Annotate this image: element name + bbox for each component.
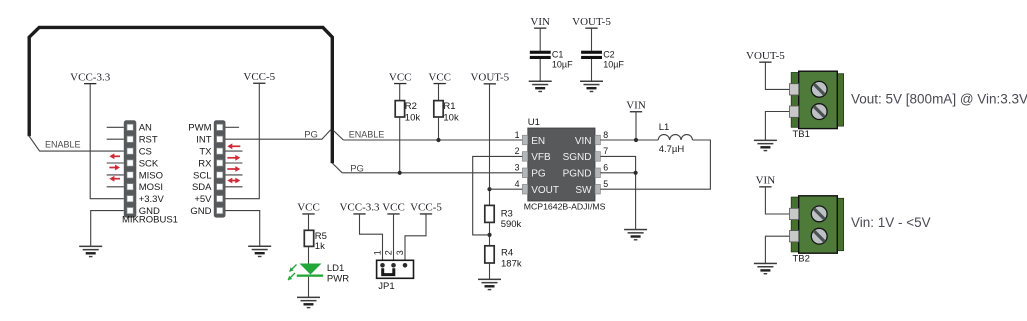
diode LD1 LED [288, 264, 323, 281]
wire R1 to ENABLE line [438, 117, 440, 140]
svg-text:TB2: TB2 [793, 254, 810, 265]
connector JP1 shunt jumper [383, 268, 394, 274]
svg-text:187k: 187k [501, 258, 522, 269]
svg-text:SDA: SDA [192, 182, 212, 193]
capacitor C1 [530, 51, 551, 59]
connector header2 body [214, 120, 226, 217]
svg-text:R1: R1 [443, 101, 455, 112]
node junction PGND [634, 171, 638, 175]
inductor L1 [658, 135, 692, 140]
label R3 value [501, 209, 522, 231]
ground C1 [529, 81, 552, 93]
svg-text:VIN: VIN [756, 175, 776, 187]
wire ENABLE from bus to U1 EN pin [343, 139, 522, 141]
connector MIKROBUS1 pin names [139, 123, 165, 217]
power VIN net flag (C1) [530, 16, 550, 29]
wire PG from INT pin to bus [226, 129, 332, 139]
label C2 value [603, 50, 624, 70]
svg-text:JP1: JP1 [378, 281, 394, 292]
power VOUT-5 net flag (TB1) [746, 50, 785, 63]
op-amp U1 MCP1642B body [528, 128, 595, 201]
arrow SCL direction (out) [227, 166, 240, 172]
svg-text:VIN: VIN [530, 16, 550, 28]
svg-text:VCC-5: VCC-5 [410, 202, 442, 214]
arrow MOSI direction (in) [109, 176, 120, 182]
wire R3 to junction [489, 222, 491, 245]
svg-text:10k: 10k [443, 112, 459, 123]
ground TB2 [754, 263, 777, 275]
svg-text:VIN: VIN [626, 100, 646, 112]
svg-text:VOUT: VOUT [531, 185, 559, 196]
svg-text:VCC-3.3: VCC-3.3 [339, 202, 380, 214]
svg-text:ENABLE: ENABLE [45, 140, 81, 150]
wire VIN flag down [635, 112, 637, 140]
svg-text:VFB: VFB [531, 152, 551, 163]
svg-text:R4: R4 [501, 248, 513, 259]
power VCC-3.3 net flag (JP1) [339, 202, 380, 215]
svg-text:PG: PG [304, 130, 318, 141]
power VCC net flag (R5) [297, 202, 320, 215]
ground header2 GND [248, 246, 271, 258]
svg-text:RX: RX [198, 158, 212, 169]
resistor R4 [485, 246, 494, 263]
svg-text:R2: R2 [405, 101, 417, 112]
wire stub MISO pin [107, 174, 124, 176]
svg-text:VCC: VCC [297, 202, 320, 214]
svg-text:3: 3 [395, 250, 405, 255]
connector header2 pin pads [217, 124, 223, 214]
svg-text:6: 6 [603, 163, 608, 173]
svg-text:R3: R3 [501, 209, 513, 220]
arrow SCK direction (in) [109, 153, 120, 159]
power VCC net flag (R1) [428, 71, 451, 84]
ground C2 [580, 81, 603, 93]
power VCC net flag (JP1) [382, 202, 405, 215]
wire ENABLE bus entry diagonal (left) [29, 135, 40, 151]
svg-text:5: 5 [603, 179, 608, 189]
svg-text:U1: U1 [528, 117, 540, 128]
power VCC-5 net flag (JP1) [410, 202, 442, 215]
svg-text:TX: TX [199, 147, 212, 158]
wire C1 to ground [539, 59, 541, 81]
connector MIKROBUS1 body [124, 120, 137, 217]
wire stub RST pin [107, 138, 124, 140]
wire PG bus exit diagonal (bottom) [332, 163, 342, 173]
connector TB1 terminal block [790, 71, 844, 128]
svg-text:1: 1 [515, 130, 520, 140]
ground MIKROBUS1 GND [79, 246, 102, 258]
wire stub SCL pin [226, 174, 243, 176]
arrow RX direction (out) [227, 155, 240, 161]
wire stub TX pin [226, 150, 243, 152]
wire VCC-5 to +5V pin [226, 83, 260, 198]
power VOUT-5 net flag (C2) [572, 16, 611, 29]
wire VIN pin to L1 [600, 139, 658, 141]
label LD1 [327, 263, 349, 284]
svg-text:MOSI: MOSI [139, 182, 163, 193]
svg-text:PWM: PWM [188, 123, 211, 134]
wire R4 to ground [489, 263, 491, 279]
node junction VIN/pin8 [634, 138, 638, 142]
wire stub RX pin [226, 162, 243, 164]
svg-text:C2: C2 [603, 50, 615, 60]
svg-text:1k: 1k [315, 241, 325, 252]
connector header2 pin names [188, 123, 212, 217]
svg-text:SW: SW [575, 185, 592, 196]
arrow TX direction (in) [227, 143, 240, 149]
wire stub SCK pin [107, 162, 124, 164]
ground TB1 [754, 140, 777, 152]
wire ENABLE from bus to MIKROBUS1 CS pin [39, 150, 124, 152]
connector JP1 pins [380, 263, 407, 268]
svg-text:VOUT-5: VOUT-5 [746, 50, 785, 62]
wire L1 to SW pin [600, 140, 710, 189]
svg-text:VOUT-5: VOUT-5 [470, 72, 509, 84]
svg-text:PG: PG [531, 169, 546, 180]
wire C2 to ground [591, 59, 593, 81]
wire VOUT pin to VOUT-5 [490, 188, 523, 190]
svg-text:LD1: LD1 [327, 263, 344, 274]
wire GND pin to ground (header2) [226, 211, 260, 247]
svg-text:VIN: VIN [575, 136, 592, 147]
arrow SDA direction (bidir) [227, 178, 240, 184]
wire VOUT-5 down to R3 [489, 84, 491, 205]
wire TB1 pin2 to ground [765, 112, 790, 141]
wire VOUT-5 to C2 [591, 28, 593, 51]
capacitor C2 [581, 51, 602, 59]
resistor R1 [434, 101, 443, 117]
svg-text:PGND: PGND [563, 169, 592, 180]
svg-text:EN: EN [531, 136, 545, 147]
connector TB2 terminal block [790, 196, 844, 253]
wire SGND to ground [600, 156, 635, 229]
op-amp U1 pin numbers [515, 130, 609, 189]
svg-text:TB1: TB1 [793, 129, 810, 140]
wire VCC-3.3 to JP1 pin1 [360, 214, 383, 265]
wire stub PWM pin [226, 126, 240, 128]
svg-text:SCK: SCK [139, 158, 159, 169]
svg-text:AN: AN [139, 123, 152, 134]
svg-text:SCL: SCL [193, 170, 211, 181]
svg-text:INT: INT [196, 135, 212, 146]
node junction VOUT/VOUT-5 [487, 187, 491, 191]
power VIN net flag (TB2) [756, 175, 776, 188]
wire VCC-3.3 to +3.3V pin [90, 84, 124, 199]
wire VCC-5 to JP1 pin3 [405, 214, 426, 265]
resistor R3 [485, 205, 494, 222]
wire R5 to LED [308, 246, 310, 264]
wire VOUT-5 to TB1 pin1 [765, 62, 790, 89]
wire VIN to TB2 pin1 [765, 187, 790, 214]
ground R4 [478, 279, 501, 291]
wire VIN to C1 [539, 28, 541, 51]
svg-text:VCC-5: VCC-5 [243, 71, 275, 83]
svg-text:RST: RST [139, 135, 158, 146]
wire VCC to R1 [438, 84, 440, 101]
power VIN net flag (U1) [626, 100, 646, 113]
svg-text:Vin: 1V - <5V: Vin: 1V - <5V [851, 215, 931, 230]
arrow MISO direction (out) [109, 165, 120, 171]
wire VCC to R2 [399, 84, 401, 101]
svg-text:MISO: MISO [139, 170, 163, 181]
svg-text:GND: GND [190, 206, 211, 217]
svg-text:SGND: SGND [563, 152, 592, 163]
svg-text:Vout: 5V [800mA] @ Vin:3.3V: Vout: 5V [800mA] @ Vin:3.3V [851, 92, 1027, 107]
label R4 value [501, 248, 522, 270]
label R2 value [405, 101, 421, 123]
svg-text:VOUT-5: VOUT-5 [572, 16, 611, 28]
label R5 value [315, 231, 327, 252]
wire LED to ground [308, 277, 310, 298]
node junction R2/PG [398, 171, 402, 175]
power VCC-3.3 net flag (MIKROBUS1) [70, 71, 111, 84]
wire GND pin to ground [91, 211, 124, 247]
wire VCC to JP1 pin2 [393, 214, 395, 265]
wire PG from bus to U1 PG pin [342, 172, 522, 174]
svg-text:PWR: PWR [327, 274, 349, 285]
svg-text:PG: PG [350, 163, 364, 174]
label C1 value [552, 50, 573, 70]
svg-text:3: 3 [515, 163, 520, 173]
svg-text:VCC: VCC [428, 71, 451, 83]
wire ENABLE bus exit diagonal (right) [334, 131, 344, 140]
svg-text:L1: L1 [659, 122, 670, 133]
svg-text:MIKROBUS1: MIKROBUS1 [122, 214, 178, 225]
op-amp U1 pin names [531, 136, 592, 196]
wire stub MOSI pin [107, 186, 124, 188]
op-amp U1 pin tabs [522, 135, 600, 194]
connector JP1 pin numbers [373, 250, 406, 255]
svg-text:+5V: +5V [194, 194, 212, 205]
wire R2 to PG line [399, 117, 401, 173]
svg-text:MCP1642B-ADJI/MS: MCP1642B-ADJI/MS [524, 202, 606, 212]
wire VFB feedback [473, 156, 523, 235]
svg-text:CS: CS [139, 147, 152, 158]
svg-text:8: 8 [603, 130, 608, 140]
svg-text:C1: C1 [552, 50, 564, 60]
svg-text:10k: 10k [405, 112, 421, 123]
node junction R1/ENABLE [436, 138, 440, 142]
ground LD1 [297, 297, 320, 309]
power VCC net flag (R2) [389, 71, 412, 84]
svg-text:VCC-3.3: VCC-3.3 [70, 71, 111, 83]
power VOUT-5 net flag (divider) [470, 72, 509, 85]
wire stub AN pin [107, 126, 124, 128]
connector JP1 body [377, 260, 414, 278]
resistor R5 [304, 230, 313, 246]
svg-text:1: 1 [373, 250, 383, 255]
svg-text:VCC: VCC [382, 202, 405, 214]
resistor R2 [395, 101, 404, 117]
svg-text:7: 7 [603, 146, 608, 156]
svg-text:VCC: VCC [389, 71, 412, 83]
wire stub SDA pin [226, 186, 243, 188]
svg-text:+3.3V: +3.3V [139, 194, 165, 205]
wire VCC to R5 [308, 214, 310, 230]
svg-text:4.7µH: 4.7µH [659, 144, 685, 155]
svg-text:590k: 590k [501, 219, 522, 230]
svg-text:2: 2 [384, 250, 394, 255]
label R1 value [443, 101, 459, 123]
wire PGND to SGND [600, 172, 635, 174]
svg-text:10µF: 10µF [603, 59, 624, 69]
svg-text:10µF: 10µF [552, 59, 573, 69]
power VCC-5 net flag (header2) [243, 71, 275, 84]
wire ENABLE/PG bus (thick) [29, 27, 332, 163]
connector MIKROBUS1 pin pads [127, 124, 133, 214]
svg-text:ENABLE: ENABLE [349, 130, 385, 140]
ground U1 SGND/PGND [624, 229, 647, 241]
node junction R3/R4/VFB [487, 233, 491, 237]
svg-text:4: 4 [515, 179, 520, 189]
svg-text:2: 2 [515, 146, 520, 156]
wire TB2 pin2 to ground [765, 236, 790, 263]
